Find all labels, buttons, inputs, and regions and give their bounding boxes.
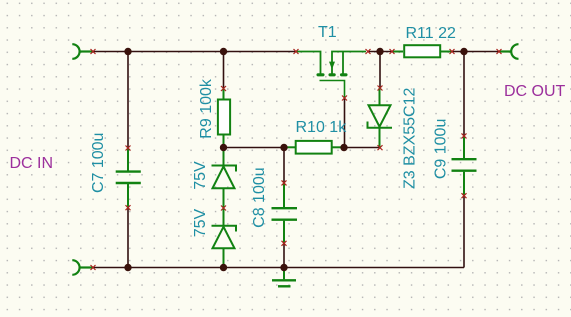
pin mark C7 top xyxy=(126,146,131,151)
svg-text:R10 1k: R10 1k xyxy=(296,119,348,136)
resistor R9 xyxy=(218,89,230,148)
zener diode D2 75V xyxy=(212,208,237,268)
pin mark C8 top xyxy=(282,180,287,185)
resistor R10 xyxy=(284,141,344,154)
pin mark C7 bottom xyxy=(126,205,131,210)
junction bottom ground xyxy=(280,264,287,271)
junction node C8 top xyxy=(280,144,287,151)
svg-text:C8 100u: C8 100u xyxy=(251,167,268,228)
wire R11 to DC OUT xyxy=(452,51,499,53)
zener diode D1 75V xyxy=(212,148,237,209)
junction top C9 xyxy=(460,48,467,55)
wire bottom rail xyxy=(93,267,464,269)
transistor T1 xyxy=(296,52,366,99)
pin mark DC IN plus xyxy=(91,49,96,54)
junction top C7 xyxy=(124,48,131,55)
svg-text:R11 22: R11 22 xyxy=(406,25,457,42)
pin mark DC IN minus xyxy=(91,265,96,270)
wire R9 top xyxy=(223,52,225,89)
capacitor C7 xyxy=(116,148,141,208)
pin mark C8 bottom xyxy=(282,241,287,246)
wire C9 top xyxy=(463,52,465,136)
wire C7 top xyxy=(127,52,129,149)
pin mark C9 top xyxy=(462,133,467,138)
svg-text:75V: 75V xyxy=(192,161,209,190)
pin mark Z3 bottom xyxy=(378,145,383,150)
capacitor C8 xyxy=(272,183,298,243)
pin mark zener mid xyxy=(221,206,226,211)
pin mark T1 drain xyxy=(294,49,299,54)
pin mark R11 right xyxy=(450,49,455,54)
pin mark C9 bottom xyxy=(462,193,467,198)
junction node gate xyxy=(340,144,347,151)
junction bottom C7 xyxy=(124,264,131,271)
pin mark R9 top xyxy=(221,86,226,91)
junction bottom zener xyxy=(220,264,227,271)
pin mark R11 left xyxy=(390,49,395,54)
wire T1 source to R11 xyxy=(368,51,392,53)
wire C8 top xyxy=(283,148,285,183)
wire C7 bottom xyxy=(127,208,129,268)
pin mark DC OUT xyxy=(497,49,502,54)
connector DC OUT xyxy=(499,44,519,59)
wire top rail left xyxy=(93,51,296,53)
svg-text:75V: 75V xyxy=(192,208,209,237)
junction node R9 bottom xyxy=(220,144,227,151)
connector DC IN plus xyxy=(72,44,93,59)
svg-text:C7 100u: C7 100u xyxy=(90,133,107,194)
svg-text:R9 100k: R9 100k xyxy=(198,78,215,139)
junction top Z3 xyxy=(376,48,383,55)
wire gate node vertical xyxy=(344,98,346,148)
wire Z3 top xyxy=(379,52,381,89)
pin mark T1 gate xyxy=(342,96,347,101)
capacitor C9 xyxy=(452,136,477,196)
ground xyxy=(272,268,296,287)
wire C8 bottom xyxy=(283,243,285,267)
svg-text:T1: T1 xyxy=(318,24,337,41)
wire node row R9 to R10 xyxy=(224,147,285,149)
connector DC IN minus xyxy=(72,260,93,275)
junction top R9 xyxy=(220,48,227,55)
svg-text:DC OUT: DC OUT xyxy=(504,83,566,100)
pin mark T1 source xyxy=(366,49,371,54)
wire R10 to Z3 xyxy=(344,147,380,149)
svg-text:DC IN: DC IN xyxy=(10,155,54,172)
zener diode Z3 xyxy=(368,88,393,148)
resistor R11 xyxy=(392,45,452,57)
pin mark Z3 top xyxy=(378,86,383,91)
svg-text:C9 100u: C9 100u xyxy=(433,119,450,180)
svg-text:Z3 BZX55C12: Z3 BZX55C12 xyxy=(402,88,419,189)
wire C9 bottom xyxy=(463,196,465,268)
